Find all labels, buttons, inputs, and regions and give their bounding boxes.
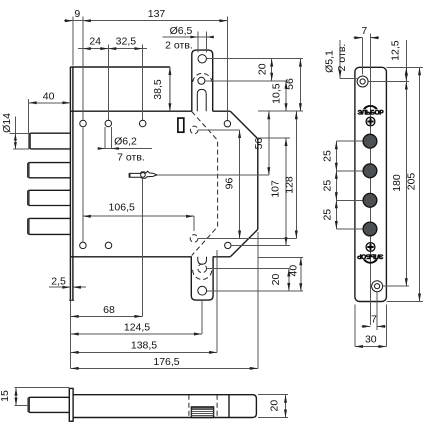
svg-text:180: 180 [391, 174, 403, 192]
side latch [28, 397, 69, 412]
side dashed right [216, 395, 218, 418]
dim 20 side line [285, 395, 287, 418]
forend strip foot [69, 299, 74, 301]
screw hole row top 3 [139, 120, 146, 127]
dim 20 side ext bottom [258, 417, 288, 419]
case top edge [70, 110, 230, 112]
dim 7 top line [354, 37, 363, 39]
svg-text:2 отв.: 2 отв. [165, 40, 193, 52]
bolt 2 [28, 190, 71, 205]
svg-text:25: 25 [322, 150, 334, 162]
leader tab hole right [207, 58, 303, 60]
svg-text:2 отв.: 2 отв. [336, 44, 348, 72]
forend strip inner line [72, 67, 74, 300]
107 arrow down [285, 237, 288, 245]
svg-text:ЭЛЬБОР: ЭЛЬБОР [358, 109, 385, 116]
svg-text:32,5: 32,5 [116, 35, 137, 47]
case bottom chamfer [230, 229, 257, 256]
56 arrow down [299, 103, 302, 111]
screw hole row top 2 [105, 120, 112, 127]
56 mid arrow up [267, 111, 270, 119]
Ø14 ext bottom [13, 148, 29, 150]
ext line hole col 140.9 [142, 45, 144, 120]
svg-text:Ø6,5: Ø6,5 [170, 25, 193, 37]
68 ext (follower axis) [141, 178, 143, 317]
38,5 arrow up [168, 67, 171, 75]
30 ext left [354, 305, 356, 347]
arrow 40 left [29, 101, 37, 104]
ext line 137 right [226, 17, 228, 120]
10,5 arrow down [285, 103, 288, 111]
dim 20 top [271, 59, 273, 81]
10,5 arrow up [285, 81, 288, 89]
svg-text:20: 20 [269, 400, 281, 412]
leader circle 3 [336, 199, 362, 201]
svg-text:20: 20 [257, 63, 269, 75]
bolt 3 [28, 218, 71, 234]
follower circle [141, 173, 146, 178]
dim 24 / 32,5 line [78, 48, 147, 50]
7 top ext hole [361, 38, 363, 75]
arrow 32,5 right [135, 47, 143, 50]
screw hole near top chamfer [224, 121, 230, 127]
svg-text:137: 137 [148, 8, 166, 20]
svg-text:176,5: 176,5 [153, 356, 179, 368]
38,5 arrow down [168, 103, 171, 111]
dim 56 top [299, 59, 301, 112]
arrow mid right [108, 47, 116, 50]
106,5 arrow right [186, 215, 194, 218]
leader tab small hole right [205, 80, 288, 82]
case top chamfer [230, 111, 257, 139]
leader hidden hole top [198, 129, 240, 131]
25 arrow bottom [335, 221, 338, 229]
top countersunk hole inner [360, 79, 365, 84]
7 bottom line left [362, 325, 371, 327]
Ø14 vert [14, 117, 16, 150]
bolt 1 face [27, 163, 30, 177]
ext bottom hole right [383, 285, 409, 287]
138,5 arrow left [71, 351, 79, 354]
side block top [192, 406, 213, 409]
106,5 ext right [193, 216, 195, 231]
7 bottom line right [377, 325, 385, 327]
25 arrow top [335, 141, 338, 149]
arrow at 82.5 left [83, 19, 91, 22]
dim 138,5 [71, 351, 217, 353]
svg-text:7 отв.: 7 отв. [117, 152, 145, 164]
7 top arrow left [370, 36, 378, 39]
7b arrow right [362, 325, 370, 328]
top plate edge [70, 66, 169, 68]
2,5 arrow right [62, 286, 70, 289]
leader hidden hole bottom [198, 238, 296, 240]
bolt 1 [28, 163, 71, 178]
bottom tab hidden small circle [198, 264, 207, 273]
20 arrow up [270, 59, 273, 67]
dim 106,5 [83, 215, 194, 217]
forend strip outer line [69, 67, 71, 300]
side block lines [191, 409, 213, 415]
svg-text:40: 40 [287, 265, 299, 277]
dim Ø6,2 vert right [110, 127, 112, 149]
side dashed left [188, 395, 190, 418]
hidden actuator plate edge [192, 112, 218, 256]
96 arrow up [238, 130, 241, 138]
svg-text:ЭЛЬБОР: ЭЛЬБОР [357, 252, 384, 259]
180 arrow down [405, 278, 408, 286]
ext line case left top [72, 17, 74, 66]
leader circle 1 [336, 140, 362, 142]
svg-text:12,5: 12,5 [390, 40, 402, 61]
leader circle 4 [336, 228, 362, 230]
side forend bar [69, 388, 73, 421]
screw hole row bottom 2 [105, 242, 112, 249]
128 arrow down [295, 231, 298, 239]
svg-text:56: 56 [284, 78, 296, 90]
dim 7 bottom verts [376, 292, 378, 330]
20 arrow down [270, 73, 273, 81]
20s arrow up [284, 395, 287, 403]
top countersunk hole outer [357, 76, 368, 87]
bottom countersunk hole inner [375, 284, 380, 289]
case bottom edge [70, 256, 230, 258]
Ø14 arrow down [14, 142, 17, 149]
205 arrow up [418, 67, 421, 75]
106,5 ext left [82, 128, 84, 242]
56 mid arrow down [267, 167, 270, 175]
12,5 arrow up [405, 67, 408, 75]
top tab small hole [198, 77, 205, 84]
2,5 right segment [73, 286, 86, 288]
dim 176,5 [71, 367, 258, 369]
7b arrow left [377, 325, 385, 328]
top tab hidden circle arc [193, 73, 212, 82]
small slot at step [178, 118, 184, 132]
svg-text:7: 7 [361, 25, 367, 37]
176,5 ext [257, 232, 259, 368]
124,5 arrow right [194, 333, 202, 336]
bottom dims left ext [70, 300, 72, 368]
hidden hole top [190, 126, 198, 134]
Ø14 arrow up [14, 134, 17, 141]
ext line hole col 107.3 [107, 45, 109, 120]
106,5 arrow left [83, 215, 91, 218]
dim 10,5 [285, 81, 287, 111]
124,5 arrow left [71, 333, 79, 336]
dim 9 and 137 line [64, 20, 227, 22]
screw hole row top 1 [80, 120, 87, 127]
svg-text:10,5: 10,5 [271, 83, 283, 104]
ext line hole col 82.5 [82, 17, 84, 120]
svg-text:24: 24 [89, 35, 101, 47]
svg-text:Ø14: Ø14 [1, 113, 13, 133]
Ø6,5 vert left [197, 32, 199, 53]
case right edge [257, 139, 259, 230]
25 arrows mid2 [335, 192, 338, 208]
svg-text:124,5: 124,5 [124, 321, 150, 333]
svg-text:68: 68 [103, 304, 115, 316]
Ø6,5 arrow right [206, 36, 214, 39]
138,5 arrow right [209, 351, 217, 354]
dim Ø6,2 vert left [104, 127, 106, 149]
svg-text:96: 96 [224, 178, 236, 190]
ext plate top right [386, 66, 423, 68]
svg-text:7: 7 [371, 314, 377, 326]
dim 15 ext bottom [14, 405, 28, 407]
dim 205 line [419, 67, 421, 301]
svg-text:56: 56 [253, 138, 265, 150]
30 arrow left [355, 345, 363, 348]
crossbar hole 2 [363, 164, 377, 178]
Ø6,5 vert right [205, 32, 207, 53]
svg-text:106,5: 106,5 [109, 201, 135, 213]
crossbar hole 3 [363, 193, 377, 207]
68 arrow right [134, 315, 142, 318]
20b arrow up [287, 269, 290, 277]
96 arrow down [238, 231, 241, 239]
svg-text:25: 25 [322, 180, 334, 192]
Ø5,1 leader [340, 77, 357, 79]
bottom tab hole [198, 286, 207, 295]
arrow at 227.4 right [219, 19, 227, 22]
arrow 40 right [62, 101, 70, 104]
dim 96 [239, 130, 241, 239]
dim 2,5 [49, 286, 70, 288]
svg-text:25: 25 [322, 209, 334, 221]
crossbar hole 1 [363, 134, 377, 148]
svg-text:Ø6,2: Ø6,2 [114, 136, 137, 148]
svg-text:205: 205 [405, 173, 417, 191]
dim 128 [295, 111, 297, 238]
screw hole near bottom chamfer [225, 242, 231, 248]
Ø6,2 arrow right [111, 147, 119, 150]
leader corner hole bottom [231, 244, 290, 246]
40b arrow up [299, 257, 302, 265]
124,5 ext [201, 301, 203, 334]
arrow mid left [100, 47, 108, 50]
arrow at 72.9 right [65, 19, 73, 22]
ext case top right [258, 110, 303, 112]
leader circle 2 [336, 170, 362, 172]
30 arrow right [378, 345, 386, 348]
56 arrow up [299, 59, 302, 67]
svg-text:30: 30 [365, 334, 377, 346]
ext case bottom right [258, 256, 303, 258]
dim 20 side ext top [258, 394, 288, 396]
40b arrow down [299, 283, 302, 291]
dim Ø6,5 shelf [163, 36, 214, 38]
phillips screw bottom [366, 243, 375, 252]
dim 40 bottom [300, 257, 302, 291]
arrow 24 left [83, 47, 91, 50]
leader bottom tab hidden circle [207, 268, 289, 270]
dim Ø14 [10, 133, 30, 135]
latch bolt face [28, 134, 31, 149]
side case body [73, 395, 256, 418]
dim 38,5 [169, 67, 171, 111]
svg-text:138,5: 138,5 [131, 340, 157, 352]
svg-text:15: 15 [0, 390, 11, 402]
176,5 arrow left [71, 367, 79, 370]
176,5 arrow right [250, 367, 258, 370]
dim 15 ext top [14, 387, 69, 389]
svg-text:38,5: 38,5 [152, 79, 164, 100]
top tab outline [192, 50, 213, 111]
107 arrow up [285, 138, 288, 146]
bottom tab hidden circle arc [193, 270, 212, 280]
follower lever face [129, 174, 131, 177]
dim 68 [71, 315, 143, 317]
205 arrow down [418, 294, 421, 302]
20s arrow down [284, 410, 287, 418]
svg-text:9: 9 [74, 8, 80, 20]
plate step edge [169, 67, 171, 111]
faceplate centerline [369, 34, 371, 326]
crossbar hole 4 [363, 222, 377, 236]
20b arrow down [287, 283, 290, 291]
hidden hole bottom [190, 235, 198, 243]
ext plate bottom right [386, 301, 423, 303]
side case end cap [228, 395, 230, 418]
latch bolt [29, 133, 70, 149]
30 ext right [385, 305, 387, 347]
68 arrow left [71, 315, 79, 318]
svg-text:Ø5,1: Ø5,1 [324, 50, 336, 73]
top tab slot [197, 89, 206, 111]
Ø6,2 arrow [98, 147, 106, 150]
12,5 arrow down / 180 arrow up [405, 74, 408, 90]
ext chamfer end [258, 137, 290, 139]
Ø5,1 arrow [339, 70, 342, 78]
dim 40 latch [29, 102, 71, 104]
leader follower right [157, 174, 269, 176]
brand logo bottom (inverted) [357, 252, 384, 263]
top tab hole [198, 55, 206, 63]
ext 40 left [28, 99, 30, 133]
dim 12,5 and 180 line [405, 40, 407, 286]
dim 30 [355, 346, 387, 348]
bolt 3 face [27, 219, 30, 234]
15 arrow down [15, 398, 18, 406]
svg-text:2,5: 2,5 [51, 275, 66, 287]
138,5 ext [216, 250, 218, 352]
2,5 arrow left [73, 286, 81, 289]
Ø6,5 arrow left [190, 36, 198, 39]
7 top arrow right [354, 36, 362, 39]
ext top hole right [368, 81, 409, 83]
side latch face [27, 398, 30, 412]
brand logo top [358, 105, 385, 116]
svg-text:40: 40 [43, 90, 55, 102]
dim 25 chain [335, 141, 337, 229]
25 arrows mid1 [335, 163, 338, 179]
bottom tab outline [191, 257, 213, 300]
svg-text:20: 20 [270, 274, 282, 286]
dim 20 bottom [288, 269, 290, 291]
bottom countersunk hole outer [372, 281, 383, 292]
128 arrow up [295, 111, 298, 119]
phillips screw top [366, 117, 375, 126]
screw hole row bottom 1 [80, 242, 87, 249]
Ø5,1 vert [339, 40, 341, 78]
faceplate outline [355, 67, 387, 301]
follower lever [129, 171, 157, 178]
svg-text:128: 128 [283, 176, 295, 194]
dim 56 mid [268, 111, 270, 175]
dim 15 line [15, 388, 17, 406]
bottom tab slot notch [198, 257, 207, 264]
dim 7 top right segment [370, 37, 379, 39]
leader bottom tab hole [207, 290, 303, 292]
15 arrow up [15, 388, 18, 396]
bolt 2 face [27, 191, 30, 205]
dim 107 [285, 138, 287, 245]
svg-text:107: 107 [270, 180, 282, 198]
side block [191, 407, 213, 418]
dim 124,5 [71, 333, 202, 335]
Ø6,2 shelf [100, 148, 152, 150]
